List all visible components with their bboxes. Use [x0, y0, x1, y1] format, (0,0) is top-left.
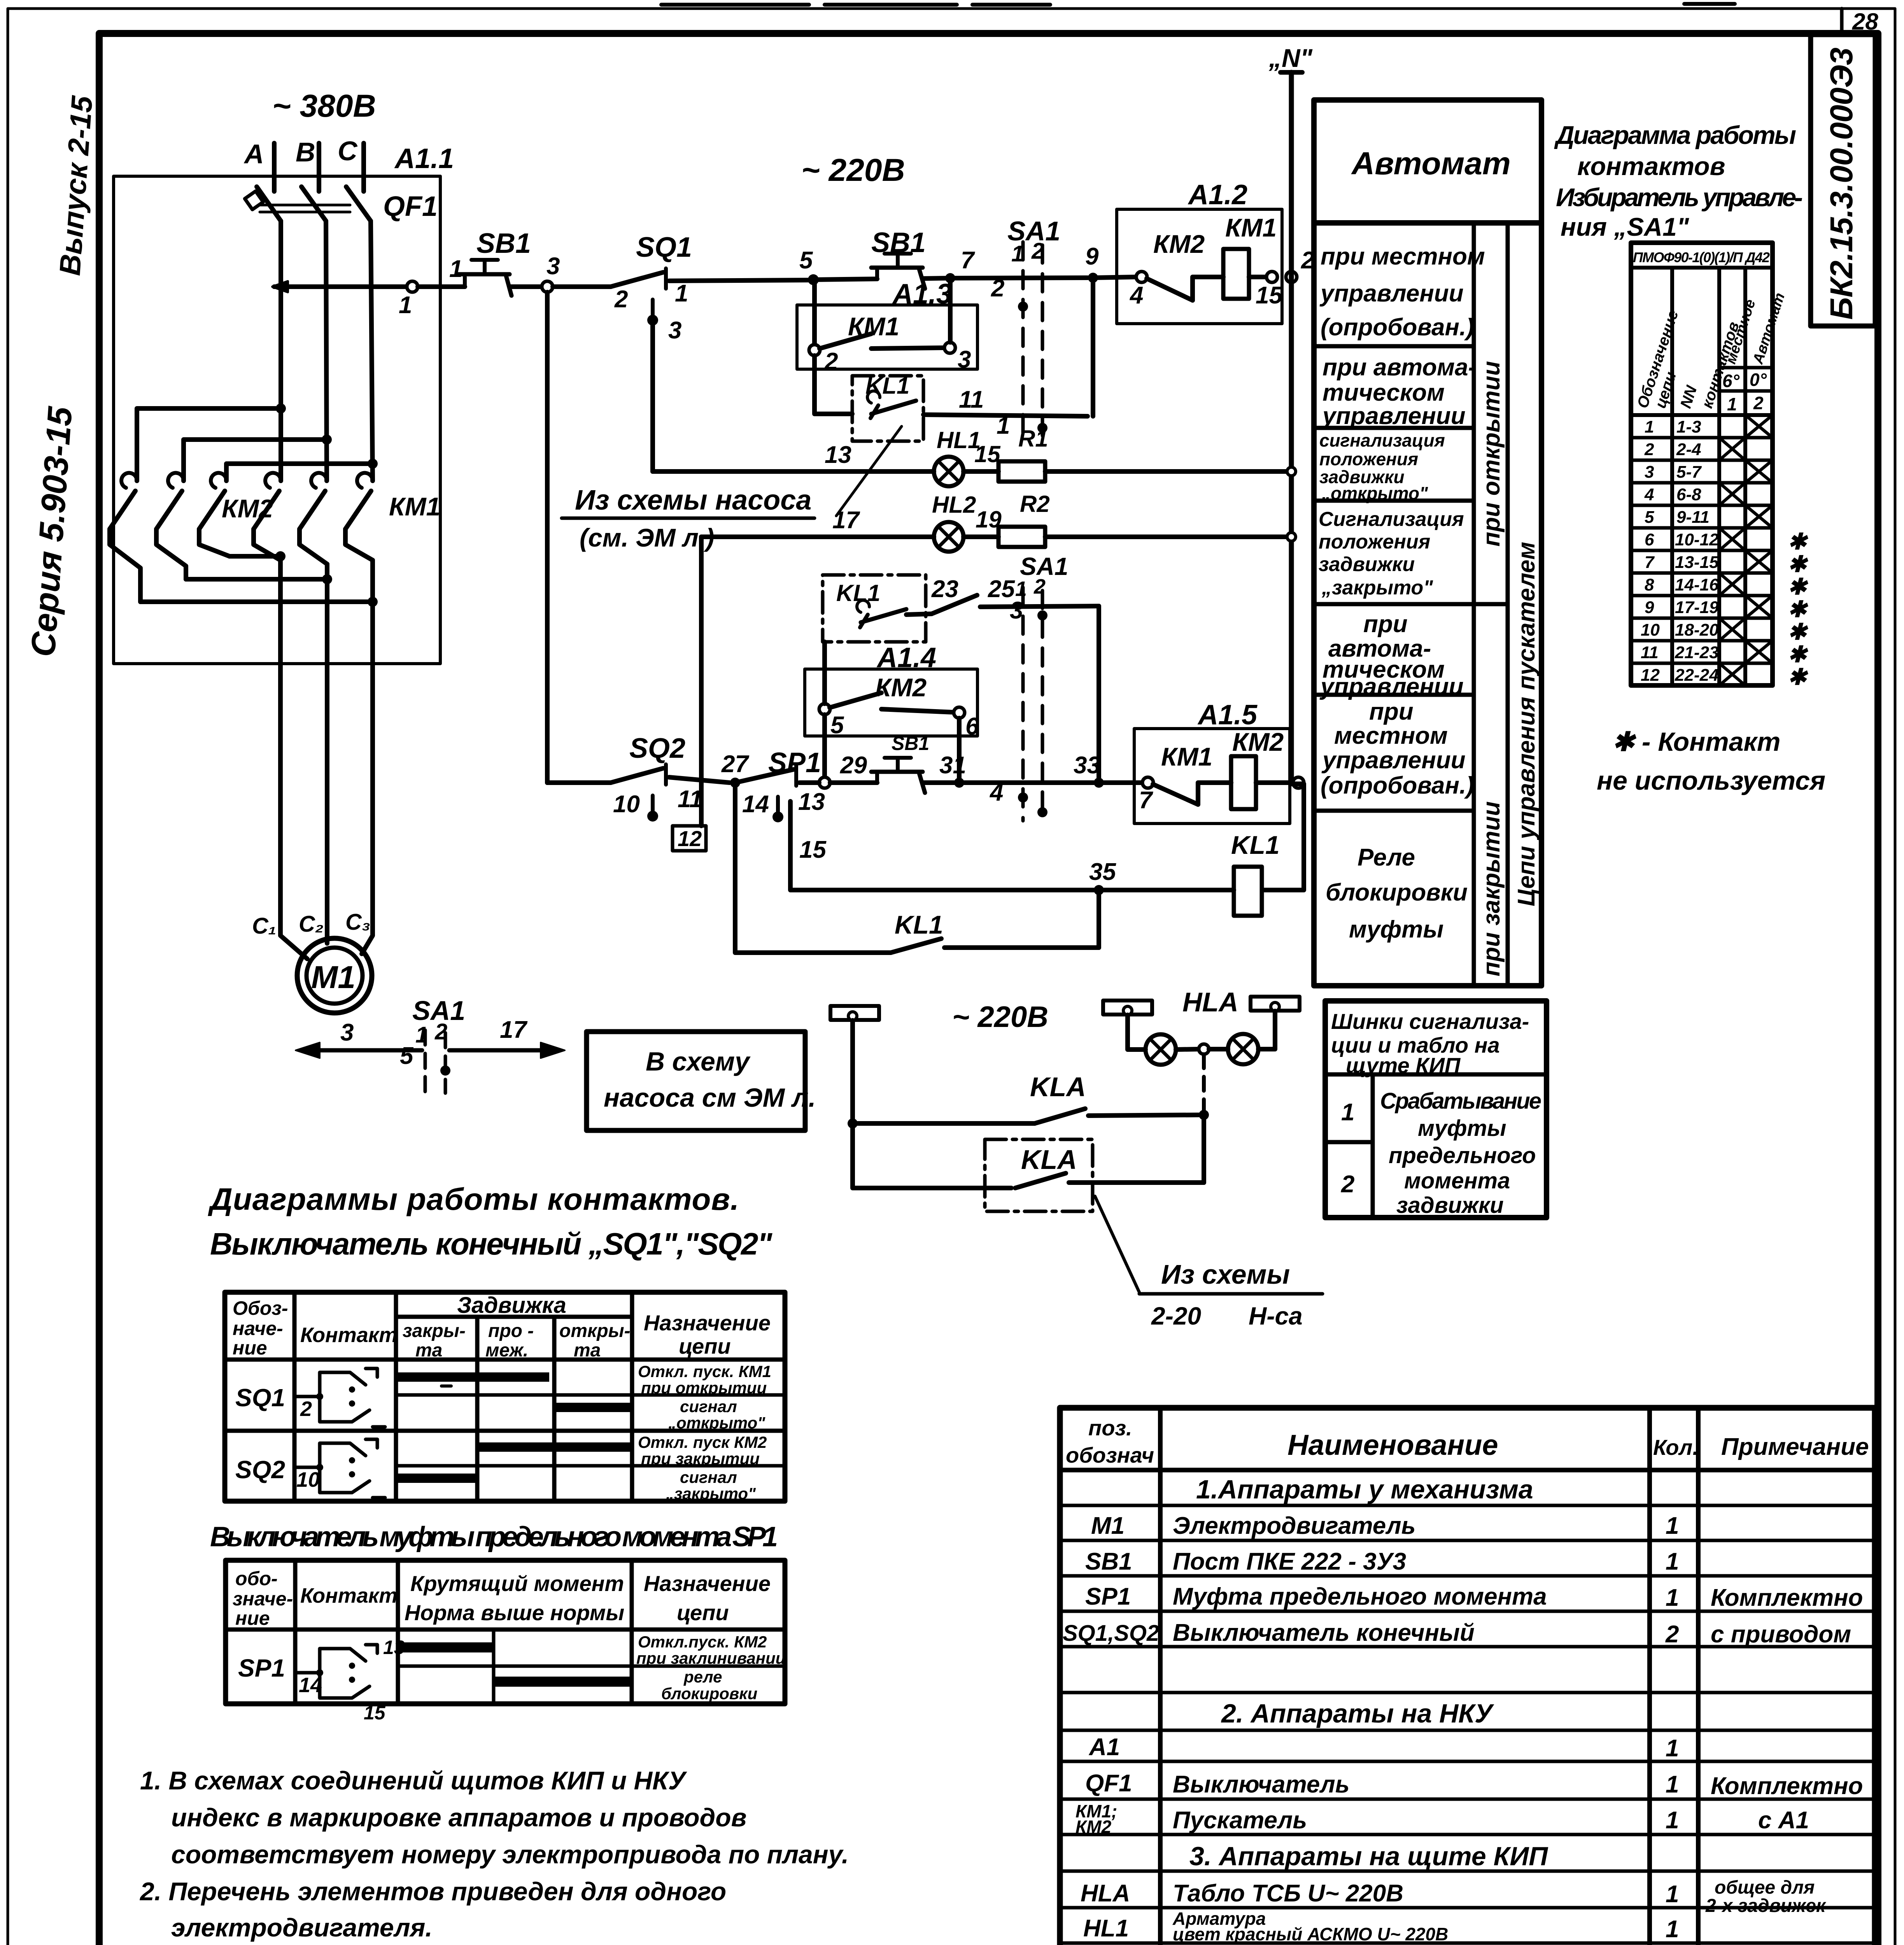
- wire riser node35 to holding contact: [1097, 890, 1101, 948]
- svg-text:7: 7: [961, 247, 975, 274]
- svg-text:✱: ✱: [1788, 552, 1808, 577]
- svg-text:KLA: KLA: [1030, 1072, 1086, 1102]
- selector SA1 dashed shafts upper: [1007, 216, 1068, 821]
- svg-text:13-15: 13-15: [1675, 553, 1719, 572]
- pushbutton SB1 on rung1: [871, 227, 926, 289]
- svg-text:Электродвигатель: Электродвигатель: [1173, 1512, 1415, 1539]
- svg-text:1: 1: [449, 256, 462, 282]
- node tap C for KM2 branch: [368, 459, 378, 469]
- svg-text:1: 1: [1666, 1771, 1679, 1798]
- table Avtomat body grid: [1314, 223, 1541, 986]
- svg-text:М1: М1: [311, 960, 356, 995]
- svg-text:1. В схемах соединений щитов: 1. В схемах соединений щитов КИП и НКУ: [140, 1766, 687, 1795]
- svg-text:6: 6: [1645, 530, 1654, 549]
- svg-text:В: В: [296, 137, 315, 167]
- svg-text:управлении: управлении: [1319, 280, 1464, 307]
- svg-text:Комплектно: Комплектно: [1711, 1584, 1863, 1611]
- contact KM2 in A1.2 with pin 4: [1129, 272, 1223, 309]
- table Avtomat rotated col labels: [1478, 361, 1540, 976]
- svg-text:18-20: 18-20: [1675, 620, 1719, 640]
- svg-text:соответствует номеру электро: соответствует номеру электропривода по п…: [171, 1840, 849, 1869]
- svg-text:та: та: [574, 1340, 601, 1361]
- svg-text:управлении: управлении: [1321, 747, 1466, 774]
- svg-text:КМ2: КМ2: [1232, 727, 1284, 756]
- document stamp box top right: [1811, 35, 1875, 326]
- wire node3 riser down to rung2: [545, 292, 550, 783]
- SQ2 row bars: [398, 1442, 631, 1483]
- svg-text:1: 1: [1666, 1584, 1679, 1611]
- wire node5 to SB1 second: [813, 279, 877, 280]
- svg-text:27: 27: [721, 751, 749, 778]
- margin label Выпуск 2-15: [53, 94, 99, 277]
- svg-text:1.Аппараты у механизма: 1.Аппараты у механизма: [1196, 1475, 1533, 1504]
- wire 31 segment through SA1 to node 33: [923, 752, 1094, 806]
- svg-text:Откл.пуск. КМ2: Откл.пуск. КМ2: [638, 1633, 767, 1651]
- svg-text:Цепи управления пускателем: Цепи управления пускателем: [1513, 542, 1540, 906]
- wire KM2 feed from phase B: [184, 440, 327, 481]
- motor M1: [297, 938, 372, 1013]
- svg-text:Задвижка: Задвижка: [457, 1293, 566, 1318]
- table SP1 header texts: [233, 1568, 771, 1629]
- parts row HLA: [1081, 1877, 1827, 1916]
- svg-text:Избиратель управле-: Избиратель управле-: [1556, 183, 1803, 212]
- svg-text:HLA: HLA: [1081, 1880, 1130, 1907]
- wire node5 riser down to KL1 contact: [814, 356, 852, 414]
- svg-text:„открыто": „открыто": [668, 1414, 765, 1432]
- contactor KM2 pole 1: [110, 473, 140, 602]
- svg-text:KLA: KLA: [1021, 1144, 1077, 1175]
- indicator board HLA lamps: [1128, 987, 1275, 1065]
- svg-text:Выключатель муфты предельного: Выключатель муфты предельного момента SP…: [210, 1521, 778, 1552]
- svg-text:Диаграмма работы: Диаграмма работы: [1554, 121, 1796, 149]
- svg-text:Муфта предельного момента: Муфта предельного момента: [1173, 1583, 1547, 1610]
- svg-text:R1: R1: [1018, 426, 1048, 452]
- svg-text:Срабатывание: Срабатывание: [1380, 1088, 1541, 1114]
- svg-text:2: 2: [614, 286, 628, 313]
- svg-text:2-20: 2-20: [1151, 1302, 1201, 1330]
- contactor KM1 pole 3 with label: [345, 473, 440, 560]
- svg-text:28: 28: [1852, 9, 1878, 35]
- wire node9 to A1.2: [1093, 277, 1137, 278]
- svg-text:23: 23: [931, 576, 958, 603]
- svg-text:блокировки: блокировки: [1326, 879, 1468, 906]
- svg-text:положения: положения: [1319, 531, 1430, 553]
- svg-text:SB1: SB1: [476, 228, 531, 259]
- svg-text:7: 7: [1139, 787, 1153, 814]
- svg-text:контактов: контактов: [1577, 152, 1725, 180]
- svg-text:15: 15: [364, 1702, 386, 1724]
- relay block A1.2: [1117, 179, 1282, 324]
- svg-text:Шинки сигнализа-: Шинки сигнализа-: [1331, 1009, 1529, 1034]
- svg-text:Откл. пуск. КМ1: Откл. пуск. КМ1: [638, 1362, 771, 1381]
- svg-text:1: 1: [997, 412, 1010, 439]
- relay block A1.3: [797, 279, 977, 369]
- wire KM2 feed from phase A: [137, 408, 281, 481]
- note text from pump circuit: [562, 485, 814, 552]
- phase label B: [296, 137, 315, 167]
- svg-text:индекс в маркировке аппаратов: индекс в маркировке аппаратов и проводов: [171, 1803, 747, 1832]
- switch SQ1 row symbol: [235, 1369, 385, 1427]
- svg-text:Назначение: Назначение: [644, 1311, 771, 1335]
- svg-text:15: 15: [799, 836, 827, 863]
- wire node33 to A1.5: [1099, 780, 1142, 785]
- note box to pump circuit: [587, 1032, 816, 1130]
- contactor KM2 pole 2: [156, 473, 186, 579]
- svg-text:HL2: HL2: [932, 492, 976, 518]
- svg-text:0°: 0°: [1750, 370, 1767, 390]
- svg-text:11: 11: [1641, 643, 1659, 662]
- svg-text:А1.5: А1.5: [1197, 699, 1258, 731]
- motor lead C3 wire: [362, 560, 373, 954]
- svg-text:KL1: KL1: [1231, 831, 1280, 859]
- coil KM1 in A1.2 with pin 15: [1223, 249, 1283, 309]
- svg-text:2: 2: [824, 348, 838, 375]
- svg-text:цепи: цепи: [677, 1600, 729, 1625]
- svg-text:КМ2: КМ2: [875, 673, 927, 702]
- svg-text:насоса см ЭМ л.: насоса см ЭМ л.: [604, 1083, 816, 1113]
- motor lead C1 wire: [280, 556, 307, 959]
- table SQ header texts: [233, 1293, 771, 1361]
- torque switch SP1: [735, 747, 825, 822]
- svg-text:местном: местном: [1334, 722, 1448, 749]
- svg-text:при закрытии: при закрытии: [1478, 801, 1505, 976]
- contact KM1 in A1.3 pins 2-3: [809, 334, 971, 375]
- svg-text:~ 220В: ~ 220В: [952, 1001, 1048, 1034]
- svg-text:Выключатель: Выключатель: [1173, 1771, 1350, 1798]
- wire KM2 feed from phase C: [226, 464, 373, 481]
- SQ1 row purpose texts: [638, 1362, 771, 1432]
- svg-text:электродвигателя.: электродвигателя.: [171, 1913, 433, 1942]
- svg-text:SQ1,SQ2: SQ1,SQ2: [1063, 1621, 1159, 1646]
- table SP1 grid: [226, 1560, 785, 1704]
- wire node3 to SQ1: [553, 284, 611, 289]
- limit switch SQ1: [611, 232, 692, 344]
- wire riser 23 wire to node 33: [1097, 606, 1101, 783]
- svg-text:2-х задвижек: 2-х задвижек: [1705, 1896, 1827, 1916]
- svg-text:щуте КИП: щуте КИП: [1346, 1053, 1461, 1078]
- contact KL1 pins 23-25 wire 3: [906, 576, 1099, 624]
- svg-text:17-19: 17-19: [1675, 598, 1719, 617]
- table SA1 header type label: [1633, 249, 1770, 265]
- svg-text:1: 1: [1666, 1735, 1679, 1762]
- node tap A for KM2 branch: [276, 403, 286, 414]
- svg-text:А: А: [243, 139, 264, 169]
- svg-text:блокировки: блокировки: [661, 1684, 757, 1703]
- contact KM1 in A1.5 pin 7: [1139, 777, 1231, 814]
- svg-text:3. Аппараты на щите КИП: 3. Аппараты на щите КИП: [1189, 1842, 1548, 1871]
- crossover wire KM2 pole2 to motor lead 2: [186, 574, 332, 584]
- table Avtomat row5 text: [1319, 611, 1464, 700]
- svg-text:SB1: SB1: [1085, 1548, 1132, 1575]
- svg-text:не используется: не используется: [1597, 766, 1825, 796]
- svg-text:1: 1: [1727, 394, 1737, 414]
- heading torque switch SP1: [210, 1521, 778, 1552]
- table Avtomat header: [1314, 100, 1541, 223]
- margin label Серия 5.903-15: [23, 405, 79, 658]
- contactor KM2 pole 3 with label: [199, 473, 273, 556]
- pushbutton SB1 upper: [458, 228, 531, 296]
- notes block 1: [139, 1766, 906, 1945]
- svg-text:3: 3: [668, 317, 681, 344]
- svg-text:4: 4: [989, 779, 1003, 806]
- table SA1 rotated headers: [1634, 291, 1788, 414]
- wire N bus to A1.5 and KL1 coil return: [1264, 784, 1304, 890]
- table Avtomat row4 text: [1319, 508, 1464, 599]
- contactor KM1 pole 2: [300, 473, 327, 564]
- svg-text:6°: 6°: [1722, 371, 1740, 391]
- svg-text:Примечание: Примечание: [1721, 1433, 1869, 1460]
- wire node5 riser to A1.3 pin2: [812, 280, 817, 345]
- svg-text:2: 2: [1665, 1621, 1679, 1648]
- contactor KM1 pole 1: [254, 473, 281, 560]
- svg-text:SQ2: SQ2: [235, 1456, 285, 1484]
- parts row SB1: [1085, 1548, 1679, 1575]
- wire 7 segment to node A1.3 riser: [923, 247, 975, 279]
- svg-text:цепи: цепи: [679, 1334, 731, 1358]
- svg-text:~ 220В: ~ 220В: [801, 152, 905, 188]
- svg-text:(опробован.): (опробован.): [1321, 772, 1474, 799]
- svg-text:3: 3: [1645, 463, 1654, 482]
- wire A1.3 pin3 riser to rung: [948, 278, 953, 342]
- limit switch SQ2: [611, 733, 702, 822]
- svg-text:при автома-: при автома-: [1322, 354, 1476, 381]
- svg-text:КМ2: КМ2: [1153, 230, 1205, 258]
- wire rung2 start: [547, 780, 611, 785]
- wire 13 vertical from SQ1 pin3: [650, 320, 655, 471]
- dashed wire lamps to KLA node: [1199, 1054, 1209, 1120]
- label ~220V: [801, 152, 905, 188]
- table SA1 contacts grid: [1631, 243, 1773, 685]
- neutral bus N: [1268, 44, 1313, 784]
- svg-text:Табло ТСБ U~ 220В: Табло ТСБ U~ 220В: [1173, 1880, 1403, 1907]
- svg-text:задвижки: задвижки: [1319, 553, 1415, 576]
- svg-text:Выпуск 2-15: Выпуск 2-15: [53, 94, 99, 277]
- svg-text:2. Перечень элементов привед: 2. Перечень элементов приведен для одног…: [139, 1877, 726, 1906]
- parts row A1: [1088, 1734, 1679, 1762]
- svg-text:2: 2: [1644, 440, 1654, 459]
- svg-text:2: 2: [1033, 575, 1046, 598]
- svg-text:9-11: 9-11: [1676, 508, 1710, 527]
- parts row SP1: [1085, 1583, 1863, 1611]
- svg-text:Диаграммы работы контактов.: Диаграммы работы контактов.: [208, 1182, 739, 1216]
- parts row KM1 KM2: [1075, 1801, 1809, 1837]
- svg-text:3: 3: [958, 346, 971, 373]
- parts list section 3: [1189, 1842, 1548, 1871]
- parts row M1: [1091, 1512, 1679, 1539]
- svg-text:1: 1: [1666, 1807, 1679, 1834]
- svg-text:С: С: [338, 136, 358, 166]
- wire phase B below QF1: [326, 221, 327, 481]
- svg-text:реле: реле: [683, 1668, 722, 1686]
- contact KLA upper: [848, 1072, 1204, 1128]
- svg-text:35: 35: [1089, 859, 1116, 885]
- heading Diagramma raboty kontaktov SA1: [1554, 121, 1803, 241]
- table Avtomat row6 text: [1321, 698, 1474, 799]
- svg-text:тическом: тическом: [1322, 379, 1445, 406]
- relay contact KL1 box second: [823, 575, 926, 642]
- svg-text:А1: А1: [1088, 1734, 1120, 1761]
- svg-text:9: 9: [1645, 598, 1654, 617]
- svg-text:1-3: 1-3: [1676, 417, 1701, 436]
- wire phase A below QF1: [279, 221, 283, 481]
- wire 13 horizontal to HL1: [653, 442, 934, 471]
- svg-text:NN: NN: [1677, 383, 1701, 410]
- terminal label C1: [252, 913, 276, 939]
- svg-text:муфты: муфты: [1349, 916, 1443, 943]
- svg-text:при: при: [1363, 611, 1408, 638]
- svg-text:при заклинивании: при заклинивании: [636, 1649, 785, 1667]
- svg-text:Назначение: Назначение: [644, 1571, 771, 1596]
- svg-text:управлении: управлении: [1321, 403, 1466, 429]
- svg-text:Сигнализация: Сигнализация: [1319, 508, 1464, 531]
- parts list section 2: [1221, 1699, 1494, 1728]
- svg-text:12: 12: [678, 826, 702, 851]
- table Avtomat row1 text: [1319, 243, 1485, 341]
- svg-text:2: 2: [1341, 1171, 1354, 1198]
- svg-text:11: 11: [959, 386, 984, 413]
- svg-text:SQ2: SQ2: [629, 733, 685, 764]
- svg-text:HL1: HL1: [1083, 1915, 1129, 1942]
- crossover wire KM2 pole1 to motor lead 3: [140, 597, 378, 607]
- wire SQ1 pin1 to node 5: [669, 280, 808, 281]
- svg-text:Реле: Реле: [1357, 844, 1415, 871]
- svg-text:та: та: [415, 1340, 442, 1361]
- wire SP1 to A1.4 riser circle: [799, 780, 819, 785]
- svg-text:✱: ✱: [1788, 642, 1808, 667]
- signal bus bar right: [1251, 997, 1300, 1011]
- lamp HL2: [932, 492, 976, 552]
- node 2 on N bus: [1286, 247, 1314, 282]
- svg-text:управлении: управлении: [1319, 673, 1464, 700]
- svg-text:Из схемы: Из схемы: [1161, 1259, 1290, 1290]
- svg-text:✱: ✱: [1788, 597, 1808, 622]
- SP1 row bars: [400, 1642, 632, 1687]
- svg-text:поз.: поз.: [1088, 1416, 1132, 1440]
- pushbutton SB1 on rung2: [871, 732, 929, 793]
- wire 35 horizontal from SP1 throw to KL1 coil: [790, 801, 1234, 890]
- svg-text:QF1: QF1: [1085, 1770, 1132, 1797]
- svg-text:5: 5: [400, 1043, 414, 1069]
- leader to note from KLA: [1095, 1196, 1139, 1292]
- svg-text:(опробован.): (опробован.): [1321, 314, 1474, 341]
- svg-text:при местном: при местном: [1321, 243, 1485, 270]
- wire KL1 box2 riser through A1.4 pin5 to rung2: [819, 642, 830, 788]
- svg-text:6-8: 6-8: [1676, 485, 1701, 504]
- svg-text:А1.4: А1.4: [876, 642, 936, 673]
- node 35: [1089, 859, 1116, 895]
- svg-text:цвет красный АСКМО U~ 220В: цвет красный АСКМО U~ 220В: [1173, 1924, 1448, 1944]
- svg-text:✱: ✱: [1788, 529, 1808, 554]
- wire riser node9 down: [1091, 278, 1095, 416]
- svg-text:✱ - Контакт: ✱ - Контакт: [1612, 727, 1780, 757]
- svg-text:✱: ✱: [1788, 619, 1808, 645]
- svg-text:Серия 5.903-15: Серия 5.903-15: [23, 405, 79, 658]
- contact KL1 holding branch: [735, 783, 1099, 953]
- terminal label C3: [345, 909, 370, 935]
- svg-text:обознач: обознач: [1066, 1443, 1154, 1467]
- svg-text:КМ1: КМ1: [389, 492, 440, 521]
- svg-text:закры-: закры-: [403, 1321, 466, 1341]
- svg-text:12: 12: [1641, 666, 1660, 685]
- svg-text:М1: М1: [1091, 1512, 1125, 1539]
- parts list header: [1066, 1416, 1869, 1467]
- parts row QF1: [1085, 1770, 1863, 1800]
- svg-text:Норма выше нормы: Норма выше нормы: [405, 1600, 624, 1625]
- enclosure A1.1: [114, 143, 454, 664]
- svg-text:1: 1: [1645, 417, 1654, 436]
- svg-text:21-23: 21-23: [1675, 643, 1719, 662]
- svg-text:✱: ✱: [1788, 664, 1808, 690]
- scan artifact dashes top edge: [661, 4, 1735, 5]
- svg-text:2: 2: [1753, 393, 1764, 413]
- table SA1 rows numbers and contacts: [1641, 417, 1719, 685]
- svg-text:9: 9: [1085, 243, 1099, 270]
- svg-text:7: 7: [1645, 553, 1655, 572]
- svg-text:4: 4: [1644, 485, 1654, 504]
- terminal box 12 of SQ2: [673, 826, 706, 851]
- parts row HL2: [1083, 1943, 1679, 1945]
- svg-text:QF1: QF1: [383, 191, 438, 222]
- svg-text:ние: ние: [233, 1337, 267, 1359]
- wire node1 to SB1: [418, 284, 465, 289]
- table Avtomat row2 text: [1321, 354, 1476, 429]
- svg-text:SP1: SP1: [1085, 1583, 1131, 1610]
- table SA1 X marks: [1719, 415, 1773, 685]
- phase label C: [338, 136, 358, 166]
- table Avtomat row7 text: [1326, 844, 1468, 943]
- svg-text:С₂: С₂: [299, 911, 324, 937]
- svg-text:при открытии: при открытии: [641, 1379, 767, 1397]
- svg-text:с А1: с А1: [1758, 1807, 1809, 1834]
- svg-text:3: 3: [547, 253, 560, 280]
- svg-text:сигнал: сигнал: [680, 1468, 737, 1486]
- svg-text:значе-: значе-: [233, 1588, 293, 1610]
- svg-text:Пост ПКЕ 222 - 3У3: Пост ПКЕ 222 - 3У3: [1173, 1548, 1406, 1575]
- svg-text:6: 6: [965, 713, 979, 740]
- wire control bus 380V tap to node 1: [274, 284, 407, 289]
- svg-text:ПМОФ90-1(0)(1)/П Д42: ПМОФ90-1(0)(1)/П Д42: [1633, 249, 1770, 265]
- table SQ diagram grid: [225, 1292, 785, 1501]
- svg-text:1: 1: [675, 280, 688, 307]
- svg-text:Откл. пуск КМ2: Откл. пуск КМ2: [638, 1433, 767, 1451]
- note text from circuit 2-20: [1139, 1259, 1322, 1330]
- svg-text:БК2.15.3.00.000Э3: БК2.15.3.00.000Э3: [1824, 47, 1859, 320]
- phase label A: [243, 139, 264, 169]
- svg-text:5: 5: [1645, 508, 1654, 527]
- wire 11 from KL1 to node9 riser: [923, 386, 1088, 439]
- SQ2 row purpose texts: [638, 1433, 767, 1503]
- resistor R1: [963, 426, 1296, 482]
- svg-text:14: 14: [742, 791, 769, 818]
- svg-text:KL1: KL1: [895, 910, 943, 939]
- svg-text:общее для: общее для: [1715, 1877, 1815, 1898]
- svg-text:SB1: SB1: [892, 732, 929, 754]
- SP1 row purpose texts: [636, 1633, 785, 1703]
- svg-text:4: 4: [1129, 282, 1143, 309]
- relay block A1.5: [1134, 699, 1290, 824]
- svg-text:14-16: 14-16: [1675, 575, 1719, 594]
- svg-text:про -: про -: [488, 1321, 534, 1341]
- svg-text:А1.3: А1.3: [892, 279, 952, 310]
- svg-text:3: 3: [340, 1019, 354, 1046]
- svg-text:13: 13: [825, 442, 851, 468]
- svg-text:2: 2: [300, 1397, 312, 1421]
- relay block A1.4: [805, 642, 977, 736]
- svg-text:10: 10: [1641, 620, 1660, 640]
- svg-text:2: 2: [991, 275, 1004, 302]
- svg-text:13: 13: [798, 789, 825, 815]
- node 3: [542, 253, 560, 292]
